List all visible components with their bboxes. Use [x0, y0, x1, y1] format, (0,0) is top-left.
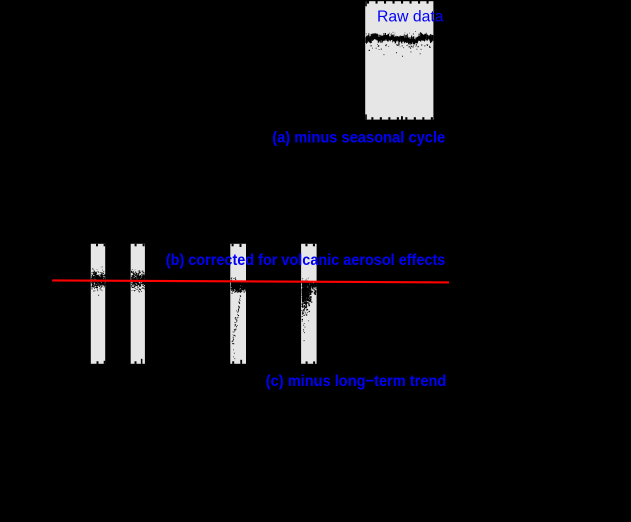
svg-text:Raw data: Raw data: [377, 8, 444, 25]
raw data noise stripe: [365, 31, 433, 57]
axis tick notches: [367, 0, 369, 4]
svg-text:(a) minus seasonal cycle: (a) minus seasonal cycle: [272, 129, 445, 146]
shaded band b3: [230, 244, 246, 364]
scatter band b4: [301, 278, 317, 341]
scatter band b3: [231, 277, 247, 359]
svg-text:(b) corrected for volcanic aer: (b) corrected for volcanic aerosol effec…: [166, 252, 446, 269]
shaded band b1: [91, 244, 105, 364]
scatter band b1: [91, 267, 106, 296]
red fitted line: [52, 280, 449, 282]
dots near line: [92, 279, 146, 284]
shaded band b4: [301, 244, 317, 364]
svg-text:(c) minus long−term trend: (c) minus long−term trend: [266, 373, 447, 390]
shaded band b2: [131, 244, 145, 364]
scatter band b2: [131, 269, 146, 292]
shaded band panel a (raw data): [365, 1, 433, 119]
